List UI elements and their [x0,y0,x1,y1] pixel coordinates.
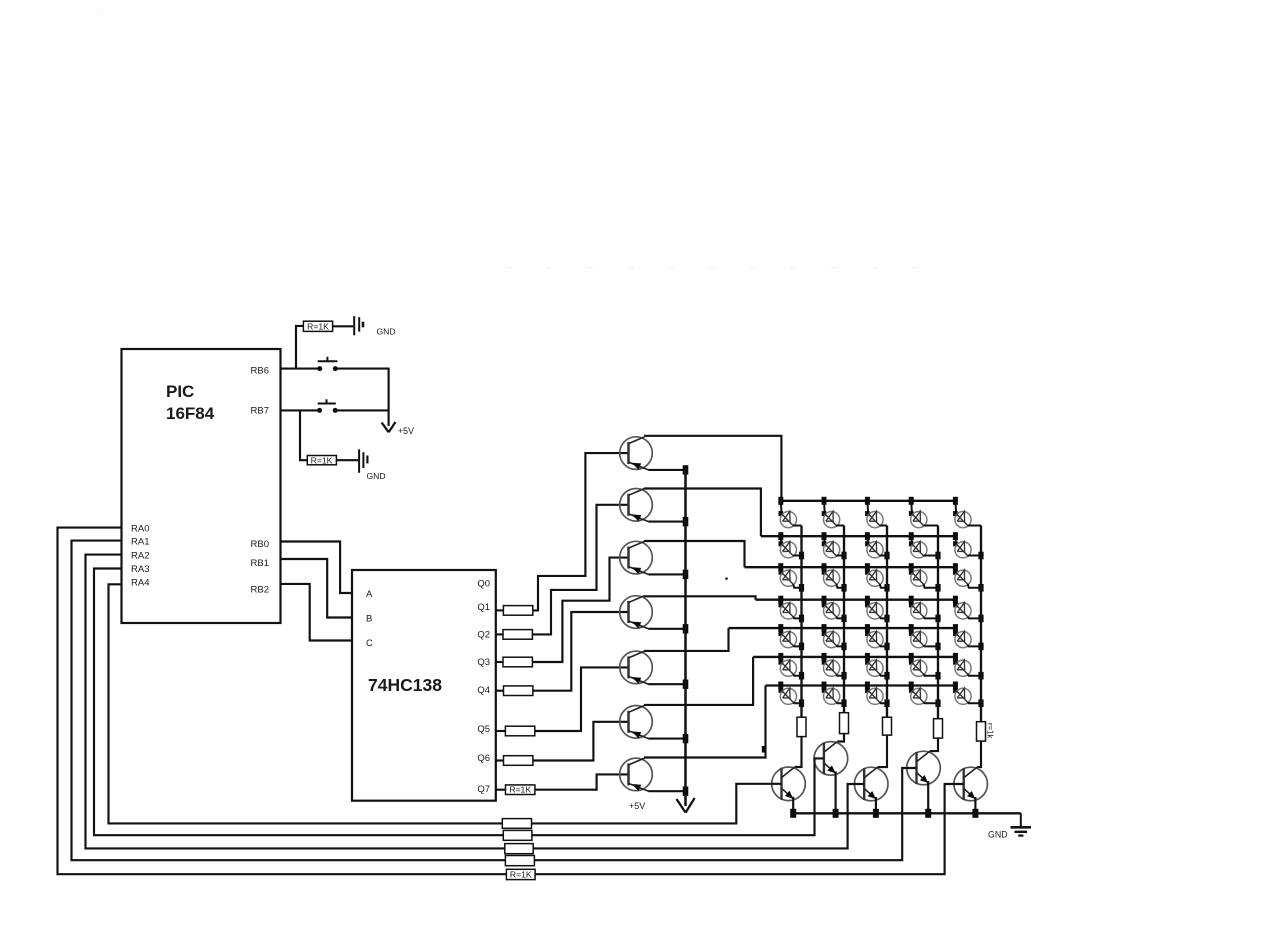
+5V emitter rail [684,470,687,806]
LED D51 (row 5, col 1) [778,624,804,650]
svg-text:C: C [366,638,373,649]
pin Q7 label [477,784,490,795]
LED D11 (row 1, col 1) [778,497,801,528]
ground [988,813,1031,839]
resistor R5 on output Q5 [496,726,535,736]
pin A label [366,589,373,600]
transistor Q9 (NPN column driver 2) [814,742,848,776]
svg-text:r=1k: r=1k [986,723,995,738]
transistor Q6 (PNP row driver 6) [620,706,653,739]
transistor Q3 (PNP row driver 3) [620,541,653,574]
wire LED row 6 anode rail [753,656,955,658]
transistor Q10 (NPN column driver 3) [854,767,888,801]
resistor R7 on output Q7 [496,785,535,795]
LED D54 (row 5, col 4) [909,624,941,650]
transistor Q11 (NPN column driver 4) [907,751,941,785]
svg-text:A: A [366,589,373,600]
LED D23 (row 2, col 3) [865,532,890,559]
LED D65 (row 6, col 5) [953,653,984,680]
wire column 4 to transistor Q11 collector [930,738,938,751]
junction [925,809,931,818]
transistor Q5 (PNP row driver 5) [620,651,653,684]
switch SW2 (push button on RB7) [317,399,338,413]
svg-text:RB1: RB1 [251,558,269,569]
transistor Q1 (PNP row driver 1) [620,437,653,470]
wire Q5 collector to LED row 5 [644,628,729,651]
pin RA1 label [131,537,149,548]
wire Q6 to transistor Q6 base [533,722,630,761]
wire column 5 to transistor Q12 collector [977,741,981,767]
wire Q5 emitter to +5V rail [649,683,686,685]
svg-text:RB0: RB0 [251,539,269,550]
wire Q1 collector to LED row 1 [644,436,781,501]
resistor R6 on output Q6 [496,756,533,766]
junction [683,517,689,526]
pin Q6 label [477,753,490,764]
LED D75 (row 7, col 5) [953,682,984,708]
wire Q5 to transistor Q5 base [535,667,630,731]
wire LED column 2 cathode line [843,526,845,713]
svg-text:Q6: Q6 [477,753,490,764]
ground symbol GND (battery style) for R13 [354,316,395,336]
LED D34 (row 3, col 4) [909,563,941,591]
LED D44 (row 4, col 4) [909,596,941,622]
wire Q4 to transistor Q4 base [533,612,630,691]
svg-text:Q7: Q7 [477,784,490,795]
svg-text:R=1K: R=1K [510,869,532,879]
wire RA0 bus to transistor base [58,528,964,875]
pin Q1 label [477,602,490,613]
junction [762,746,766,753]
LED D71 (row 7, col 1) [778,682,804,708]
junction [683,680,689,689]
junction [683,734,689,743]
LED D13 (row 1, col 3) [865,497,887,528]
LED D45 (row 4, col 5) [953,596,984,622]
wire LED row 5 anode rail [729,627,956,629]
transistor Q2 (PNP row driver 2) [620,489,653,522]
wire LED row 4 anode rail [756,599,956,601]
svg-text:74HC138: 74HC138 [368,675,442,695]
wire RA1 bus to transistor base [72,541,917,861]
LED D61 (row 6, col 1) [778,653,804,680]
LED D52 (row 5, col 2) [822,624,847,650]
wire LED column 1 cathode line [800,526,802,718]
wire LED row 1 anode rail [781,500,955,502]
switch SW1 (push button on RB6) [317,357,338,371]
wire Q3 to transistor Q3 base [532,558,629,662]
wire SW2 to +5V line [338,409,389,411]
wire LED row 3 anode rail [745,566,956,568]
svg-text:GND: GND [988,829,1008,839]
wire Q8 emitter to GND rail [792,797,794,814]
wire SW1 to +5V line [338,368,390,370]
svg-text:+5V: +5V [629,801,645,811]
LED D14 (row 1, col 4) [909,497,938,528]
wire Q9 emitter to GND rail [835,771,837,813]
wire RB0 to U2 pin A [281,542,353,594]
LED D31 (row 3, col 1) [778,563,804,591]
wire LED column 4 cathode line [937,526,939,719]
junction [790,809,796,818]
wire GND rail [791,812,1021,814]
LED D22 (row 2, col 2) [822,532,847,559]
resistor R13 R=1K pull-down of RB6 [296,321,353,368]
wire Q4 emitter to +5V rail [649,628,686,630]
pin B label [366,614,372,625]
svg-text:RB6: RB6 [251,366,269,377]
resistor R10 r=1k column 3 [883,717,892,735]
ground symbol GND (battery style) for R14 [359,449,386,481]
wire RB2 to U2 pin C [281,584,353,641]
svg-text:RA0: RA0 [131,523,149,534]
svg-text:Q5: Q5 [477,724,490,735]
transistor Q7 (PNP row driver 7) [620,758,653,791]
LED D12 (row 1, col 2) [822,497,845,528]
pin RB2 label [251,584,269,595]
wire Q7 to transistor Q7 base [535,774,630,789]
resistor R19 R=1K on RA0 bus [506,869,535,879]
resistor R8 r=1k column 1 [797,717,806,736]
resistor R16 R=1K on RA3 bus [503,830,532,840]
wire LED column 5 cathode line [980,526,982,722]
svg-text:Q1: Q1 [477,602,490,613]
resistor R15 R=1K on RA4 bus [502,819,531,829]
pin RB0 label [251,539,269,550]
wire RB1 to U2 pin B [281,559,353,618]
junction [873,809,879,818]
svg-text:GND: GND [377,326,396,336]
+5V supply arrow at switches [382,368,414,437]
pin RA2 label [131,550,149,561]
wire Q3 collector to LED row 3 [644,541,745,567]
resistor R2 on output Q2 [496,630,533,640]
LED D32 (row 3, col 2) [822,563,847,591]
resistor R9 r=1k column 2 [840,713,849,734]
wire Q1 emitter to +5V rail [649,469,686,471]
junction [683,624,689,633]
pin Q4 label [477,685,490,696]
svg-text:RA3: RA3 [131,564,149,575]
svg-text:16F84: 16F84 [166,404,215,423]
LED D55 (row 5, col 5) [953,624,984,650]
junction [972,809,978,818]
resistor R1 on output Q1 [496,606,533,616]
junction [683,787,689,796]
wire RB7 to switch SW2 [281,409,318,411]
LED D64 (row 6, col 4) [909,653,941,680]
pin RA0 label [131,523,149,534]
resistor R17 R=1K on RA2 bus [505,844,533,854]
wire column 3 to transistor Q10 collector [878,735,887,767]
LED D62 (row 6, col 2) [822,653,847,680]
pin RA3 label [131,564,149,575]
transistor Q8 (NPN column driver 1) [772,767,806,801]
LED D24 (row 2, col 4) [909,532,941,559]
svg-text:RA1: RA1 [131,537,149,548]
wire Q6 collector to LED row 6 [644,657,753,705]
LED D21 (row 2, col 1) [778,532,804,559]
wire Q7 emitter to +5V rail [649,790,686,792]
resistor R3 on output Q3 [496,657,533,667]
resistor R4 on output Q4 [496,686,533,696]
wire Q6 emitter to +5V rail [649,738,686,740]
LED D63 (row 6, col 3) [865,653,890,680]
wire RA4 bus to transistor base [109,584,782,823]
wire Q2 to transistor Q2 base [532,505,629,635]
junction [833,809,839,818]
LED D41 (row 4, col 1) [778,596,804,622]
LED D43 (row 4, col 3) [865,596,890,622]
resistor R18 R=1K on RA1 bus [505,856,534,866]
transistor Q4 (PNP row driver 4) [620,596,653,629]
svg-text:Q3: Q3 [477,657,490,668]
svg-text:R=1K: R=1K [509,785,531,795]
wire Q1 to transistor Q1 base [533,453,630,610]
wire LED row 7 anode rail [766,684,956,686]
LED D72 (row 7, col 2) [822,682,847,708]
pin Q3 label [477,657,490,668]
LED D73 (row 7, col 3) [865,682,890,708]
wire RB6 to switch SW1 [281,368,318,370]
resistor R12 r=1k column 5 [977,722,995,741]
svg-text:B: B [366,614,372,625]
svg-text:R=1K: R=1K [311,456,333,466]
wire column 1 to transistor Q8 collector [795,737,802,767]
LED D35 (row 3, col 5) [953,563,984,591]
junction [683,465,689,474]
wire Q4 collector to LED row 4 [644,596,756,599]
svg-text:Q4: Q4 [477,685,490,696]
svg-text:+5V: +5V [398,426,414,436]
pin RB6 label [251,366,269,377]
pin Q2 label [477,629,490,640]
wire RA2 bus to transistor base [86,555,865,849]
+5V supply arrow at emitter rail [629,798,695,813]
svg-text:Q2: Q2 [477,629,490,640]
svg-text:Q0: Q0 [477,579,490,590]
svg-text:RB7: RB7 [251,406,269,417]
wire Q11 emitter to GND rail [927,781,929,813]
IC U1 PIC 16F84 microcontroller body [122,349,281,623]
LED D25 (row 2, col 5) [953,532,984,559]
wire Q10 emitter to GND rail [875,797,877,813]
junction [683,570,689,579]
pin RA4 label [131,577,149,588]
wire Q12 emitter to GND rail [974,797,976,813]
LED D15 (row 1, col 5) [953,497,981,528]
wire Q2 emitter to +5V rail [649,521,686,523]
svg-text:RA2: RA2 [131,550,149,561]
IC U2 74HC138 decoder body [352,570,496,801]
LED D42 (row 4, col 2) [822,596,847,622]
wire Q3 emitter to +5V rail [649,573,686,575]
wire RA3 bus to transistor base [94,569,824,836]
pin C label [366,638,373,649]
wire column 2 to transistor Q9 collector [837,734,844,742]
svg-text:RB2: RB2 [251,584,269,595]
svg-text:GND: GND [367,471,386,481]
wire LED row 2 anode rail [761,535,956,537]
svg-text:PIC: PIC [166,382,194,401]
pin Q5 label [477,724,490,735]
wire LED column 3 cathode line [886,526,888,718]
LED D74 (row 7, col 4) [909,682,941,708]
wire Q2 collector to LED row 2 [644,489,761,537]
LED D53 (row 5, col 3) [865,624,890,650]
resistor R11 r=1k column 4 [934,719,943,738]
pin Q0 label [477,579,490,590]
resistor R14 R=1K pull-down of RB7 [300,410,358,465]
svg-text:RA4: RA4 [131,577,149,588]
LED D33 (row 3, col 3) [865,563,890,591]
pin RB7 label [251,406,269,417]
pin RB1 label [251,558,269,569]
svg-text:R=1K: R=1K [307,322,329,332]
transistor Q12 (NPN column driver 5) [954,767,988,801]
wire Q7 collector to LED row 7 [644,686,766,758]
